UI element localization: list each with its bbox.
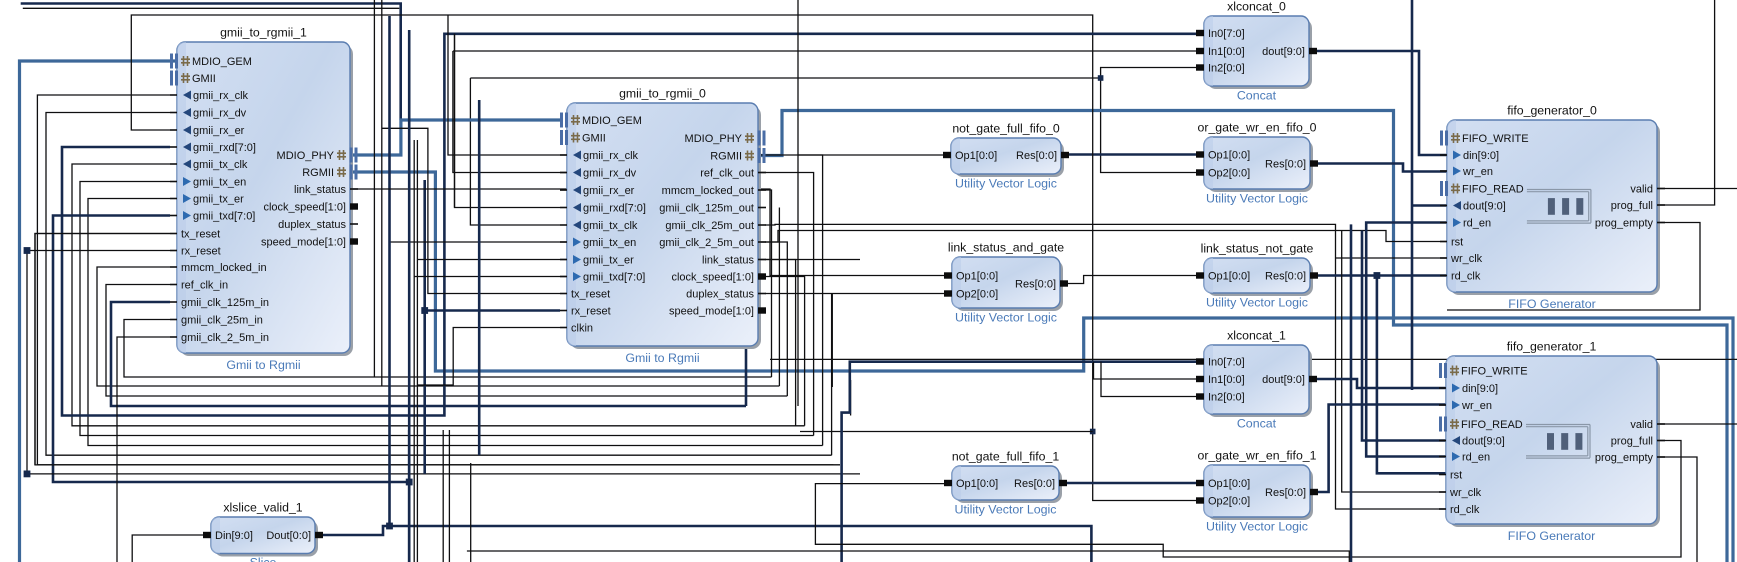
svg-text:xlconcat_0: xlconcat_0 bbox=[1227, 0, 1286, 14]
junction at 27,250 bbox=[24, 247, 31, 254]
svg-text:gmii_clk_25m_out: gmii_clk_25m_out bbox=[665, 220, 754, 232]
svg-text:In1[0:0]: In1[0:0] bbox=[1208, 46, 1245, 58]
svg-text:In0[7:0]: In0[7:0] bbox=[1208, 28, 1245, 40]
svg-text:gmii_txd[7:0]: gmii_txd[7:0] bbox=[193, 211, 255, 223]
junction at 1101,78 bbox=[1098, 75, 1104, 81]
wire gmii_to_rgmii_1 pin y=302 routing band y=406 bbox=[111, 302, 746, 406]
svg-text:din[9:0]: din[9:0] bbox=[1463, 150, 1499, 162]
svg-text:clock_speed[1:0]: clock_speed[1:0] bbox=[263, 202, 346, 214]
wire w49 bbox=[417, 328, 560, 386]
svg-text:tx_reset: tx_reset bbox=[181, 229, 220, 241]
svg-text:gmii_clk_2_5m_out: gmii_clk_2_5m_out bbox=[659, 237, 754, 249]
wire w61 bbox=[1336, 257, 1448, 259]
wire w41 bbox=[453, 51, 567, 173]
wire w22 bbox=[560, 190, 772, 377]
svg-text:Res[0:0]: Res[0:0] bbox=[1265, 159, 1306, 171]
block gmii_to_rgmii_0 bbox=[560, 87, 766, 366]
svg-text:Utility Vector Logic: Utility Vector Logic bbox=[1206, 192, 1308, 206]
wire w23 bbox=[778, 208, 780, 387]
svg-text:clkin: clkin bbox=[571, 323, 593, 335]
wire w71 bbox=[831, 294, 833, 388]
wire w2 bbox=[21, 4, 401, 121]
svg-text:Op2[0:0]: Op2[0:0] bbox=[1208, 168, 1250, 180]
svg-text:prog_empty: prog_empty bbox=[1595, 452, 1654, 464]
svg-text:speed_mode[1:0]: speed_mode[1:0] bbox=[669, 306, 754, 318]
svg-text:RGMII: RGMII bbox=[710, 151, 742, 163]
wire bus to xlconcat_1 In0 bbox=[842, 362, 1197, 562]
wire link_status_1 to and_gate Op1 bbox=[352, 189, 944, 276]
svg-text:In0[7:0]: In0[7:0] bbox=[1208, 357, 1245, 369]
svg-text:gmii_rx_er: gmii_rx_er bbox=[193, 125, 245, 137]
svg-text:gmii_tx_en: gmii_tx_en bbox=[583, 237, 636, 249]
svg-text:ref_clk_out: ref_clk_out bbox=[700, 168, 754, 180]
wire not_gate_full_fifo_1 Res to or_gate_1 Op1 bbox=[1059, 482, 1197, 485]
svg-text:Op1[0:0]: Op1[0:0] bbox=[1208, 271, 1250, 283]
wire MDIO_PHY_1 to MDIO_GEM_0 bus bbox=[352, 120, 560, 155]
wire fifo_0 prog_empty bbox=[1447, 223, 1700, 311]
svg-text:FIFO_WRITE: FIFO_WRITE bbox=[1461, 366, 1528, 378]
wire w31 bbox=[850, 380, 852, 416]
svg-text:Op1[0:0]: Op1[0:0] bbox=[956, 478, 998, 490]
svg-text:prog_empty: prog_empty bbox=[1595, 218, 1654, 230]
svg-text:FIFO_WRITE: FIFO_WRITE bbox=[1462, 133, 1529, 145]
wire w40 bbox=[382, 128, 560, 293]
wire w53 bbox=[388, 16, 391, 526]
wire gmii_rxd bus to xlconcat_0 In0 bbox=[62, 34, 1197, 416]
svg-text:gmii_tx_en: gmii_tx_en bbox=[193, 177, 246, 189]
wire w7 bbox=[1101, 78, 1197, 173]
svg-text:Utility Vector Logic: Utility Vector Logic bbox=[1206, 296, 1308, 310]
wire w99 bbox=[478, 100, 481, 455]
svg-text:rd_clk: rd_clk bbox=[1450, 504, 1480, 516]
FIFO icon bbox=[1527, 190, 1591, 224]
svg-text:gmii_rx_clk: gmii_rx_clk bbox=[583, 150, 639, 162]
wire w87 bbox=[1366, 223, 1447, 457]
svg-text:Utility Vector Logic: Utility Vector Logic bbox=[955, 311, 1057, 325]
wire w97 bbox=[448, 430, 450, 562]
svg-text:GMII: GMII bbox=[192, 73, 216, 85]
wire w34 bbox=[408, 482, 411, 562]
svg-text:Res[0:0]: Res[0:0] bbox=[1014, 478, 1055, 490]
svg-text:Utility Vector Logic: Utility Vector Logic bbox=[955, 177, 1057, 191]
svg-text:Utility Vector Logic: Utility Vector Logic bbox=[1206, 520, 1308, 534]
svg-text:RGMII: RGMII bbox=[302, 167, 334, 179]
svg-text:Concat: Concat bbox=[1237, 417, 1277, 431]
svg-text:Din[9:0]: Din[9:0] bbox=[215, 530, 253, 542]
wire w64 bbox=[1411, 0, 1414, 390]
svg-text:gmii_clk_25m_in: gmii_clk_25m_in bbox=[181, 315, 263, 327]
wire w27 bbox=[560, 277, 805, 426]
svg-text:Res[0:0]: Res[0:0] bbox=[1016, 150, 1057, 162]
junction at 27,474 bbox=[24, 471, 31, 478]
svg-text:gmii_rxd[7:0]: gmii_rxd[7:0] bbox=[193, 142, 256, 154]
wire w29 bbox=[560, 155, 823, 446]
svg-text:fifo_generator_1: fifo_generator_1 bbox=[1507, 340, 1597, 354]
wire RGMII_0 bus bbox=[758, 111, 1727, 562]
svg-text:Op1[0:0]: Op1[0:0] bbox=[1208, 478, 1250, 490]
wire w48 bbox=[455, 34, 561, 208]
wire gmii_to_rgmii_1 pin y=181.5 routing band y=435.5 bbox=[80, 182, 814, 436]
svg-text:not_gate_full_fifo_1: not_gate_full_fifo_1 bbox=[952, 450, 1060, 464]
svg-text:dout[9:0]: dout[9:0] bbox=[1262, 46, 1305, 58]
block xlslice_valid_1 bbox=[203, 501, 323, 562]
wire w81 bbox=[770, 358, 1737, 360]
svg-text:Res[0:0]: Res[0:0] bbox=[1015, 279, 1056, 291]
wire w92 bbox=[470, 463, 472, 562]
block fifo_generator_1 bbox=[1439, 340, 1665, 544]
wire w62 bbox=[765, 231, 1447, 243]
wire w102 bbox=[454, 34, 456, 208]
junction at 409,482 bbox=[406, 479, 413, 486]
svg-text:gmii_rx_clk: gmii_rx_clk bbox=[193, 90, 249, 102]
junction at 425,310 bbox=[421, 307, 428, 314]
wire gmii_to_rgmii_1 pin y=112.5 routing band y=455.2 bbox=[46, 113, 832, 456]
svg-text:prog_full: prog_full bbox=[1611, 200, 1653, 212]
wire w45 bbox=[390, 241, 561, 243]
wire xlconcat_0 dout to fifo_0 din bbox=[1309, 51, 1447, 155]
svg-text:MDIO_GEM: MDIO_GEM bbox=[582, 115, 642, 127]
svg-text:Op1[0:0]: Op1[0:0] bbox=[1208, 150, 1250, 162]
svg-text:gmii_rx_dv: gmii_rx_dv bbox=[193, 108, 247, 120]
svg-text:or_gate_wr_en_fifo_0: or_gate_wr_en_fifo_0 bbox=[1198, 121, 1317, 135]
svg-text:gmii_tx_er: gmii_tx_er bbox=[193, 194, 244, 206]
svg-text:rst: rst bbox=[1450, 470, 1462, 482]
wire w50 bbox=[373, 0, 375, 377]
block xlconcat_1 bbox=[1196, 329, 1317, 431]
svg-text:wr_clk: wr_clk bbox=[1450, 253, 1483, 265]
block not_gate_full_fifo_1 bbox=[944, 450, 1067, 517]
svg-text:MDIO_GEM: MDIO_GEM bbox=[192, 56, 252, 68]
svg-text:mmcm_locked_in: mmcm_locked_in bbox=[181, 262, 267, 274]
wire w80 bbox=[1101, 362, 1197, 397]
wire w39 bbox=[425, 309, 560, 312]
block not_gate_full_fifo_0 bbox=[943, 122, 1069, 191]
wire xlconcat_1 dout to fifo_1 din bbox=[1309, 379, 1446, 388]
wire gmii_to_rgmii_1 pin y=233.5 routing band y=464.9 bbox=[35, 234, 840, 465]
svg-text:gmii_to_rgmii_1: gmii_to_rgmii_1 bbox=[220, 26, 307, 40]
wire and_gate Res to link_status_not_gate Op1 bbox=[1060, 276, 1197, 284]
svg-text:Utility Vector Logic: Utility Vector Logic bbox=[955, 503, 1057, 517]
wire w96 bbox=[442, 430, 444, 562]
wire w3 bbox=[23, 7, 400, 9]
wire w95 bbox=[416, 430, 418, 562]
block fifo_generator_0 bbox=[1440, 104, 1665, 312]
wire w36 bbox=[37, 464, 833, 466]
wire gmii_to_rgmii_1 pin y=284.5 routing band y=396 bbox=[106, 285, 787, 397]
svg-text:xlslice_valid_1: xlslice_valid_1 bbox=[223, 501, 302, 515]
wire w42 bbox=[453, 50, 1197, 52]
svg-text:rx_reset: rx_reset bbox=[181, 246, 221, 258]
svg-text:gmii_clk_125m_in: gmii_clk_125m_in bbox=[181, 297, 269, 309]
svg-text:rx_reset: rx_reset bbox=[571, 306, 611, 318]
svg-text:gmii_rx_dv: gmii_rx_dv bbox=[583, 168, 637, 180]
wire net gmii_rx_er_1 bbox=[131, 15, 1092, 130]
wire or_gate_0 Res to fifo_0 wr_en bbox=[1311, 164, 1447, 172]
wire fifo_1 valid bbox=[1658, 423, 1737, 425]
svg-text:gmii_to_rgmii_0: gmii_to_rgmii_0 bbox=[619, 87, 706, 101]
svg-text:mmcm_locked_out: mmcm_locked_out bbox=[662, 185, 754, 197]
wire w46 bbox=[417, 259, 560, 261]
svg-text:rd_en: rd_en bbox=[1462, 452, 1490, 464]
wire fifo_1 dout bbox=[1362, 231, 1446, 441]
wire w55 bbox=[797, 0, 799, 406]
svg-text:Res[0:0]: Res[0:0] bbox=[1265, 271, 1306, 283]
svg-text:In2[0:0]: In2[0:0] bbox=[1208, 63, 1245, 75]
wire w77 bbox=[1342, 231, 1447, 493]
svg-text:In2[0:0]: In2[0:0] bbox=[1208, 392, 1245, 404]
wire xlslice Dout net bbox=[316, 526, 1091, 562]
FIFO icon bbox=[1526, 425, 1590, 459]
wire gmii_to_rgmii_1 pin y=267 routing band y=386 bbox=[97, 267, 779, 386]
wire w25 bbox=[745, 346, 748, 406]
wire w93 bbox=[408, 430, 411, 562]
svg-text:FIFO_READ: FIFO_READ bbox=[1462, 184, 1524, 196]
svg-text:gmii_clk_125m_out: gmii_clk_125m_out bbox=[659, 203, 754, 215]
block xlconcat_0 bbox=[1196, 0, 1317, 103]
svg-text:FIFO_READ: FIFO_READ bbox=[1461, 419, 1523, 431]
svg-text:valid: valid bbox=[1630, 184, 1653, 196]
wire MDIO bus into gmii_to_rgmii_1 MDIO_GEM bbox=[20, 61, 178, 562]
wire w44 bbox=[448, 15, 560, 155]
wire to fifo_1 rst bbox=[1377, 276, 1447, 474]
svg-text:fifo_generator_0: fifo_generator_0 bbox=[1507, 104, 1597, 118]
svg-text:Op1[0:0]: Op1[0:0] bbox=[956, 271, 998, 283]
svg-text:wr_en: wr_en bbox=[1461, 400, 1492, 412]
svg-text:Slice: Slice bbox=[250, 556, 277, 562]
svg-text:prog_full: prog_full bbox=[1611, 436, 1653, 448]
svg-text:wr_en: wr_en bbox=[1462, 166, 1493, 178]
wire gmii_txd_1 bus bbox=[53, 216, 409, 483]
svg-text:link_status: link_status bbox=[702, 255, 754, 267]
wire w101 bbox=[408, 30, 411, 482]
svg-text:not_gate_full_fifo_0: not_gate_full_fifo_0 bbox=[952, 122, 1060, 136]
wire link_status_not_gate Res to fifo_0 rd_clk bbox=[1311, 274, 1447, 277]
wire gmii_to_rgmii_1 pin y=164 routing band y=425.8 bbox=[72, 164, 805, 426]
junction at 1377,276 bbox=[1374, 272, 1381, 279]
wire tx_reset net bbox=[35, 234, 170, 465]
svg-text:duplex_status: duplex_status bbox=[686, 289, 754, 301]
svg-text:gmii_clk_2_5m_in: gmii_clk_2_5m_in bbox=[181, 332, 269, 344]
svg-text:din[9:0]: din[9:0] bbox=[1462, 383, 1498, 395]
svg-text:duplex_status: duplex_status bbox=[278, 219, 346, 231]
svg-text:Op1[0:0]: Op1[0:0] bbox=[955, 150, 997, 162]
svg-text:clock_speed[1:0]: clock_speed[1:0] bbox=[671, 272, 754, 284]
wire w43 bbox=[117, 337, 170, 562]
wire w100 bbox=[416, 140, 418, 430]
wire fifo_1 prog_full to not_gate_1 Op1 bbox=[815, 441, 1681, 558]
svg-text:rd_en: rd_en bbox=[1463, 218, 1491, 230]
svg-text:In1[0:0]: In1[0:0] bbox=[1208, 374, 1245, 386]
svg-text:dout[9:0]: dout[9:0] bbox=[1462, 436, 1505, 448]
wire w5 bbox=[470, 77, 1100, 79]
svg-text:rst: rst bbox=[1451, 237, 1463, 249]
wire w28 bbox=[560, 173, 814, 436]
svg-text:Res[0:0]: Res[0:0] bbox=[1265, 487, 1306, 499]
svg-text:dout[9:0]: dout[9:0] bbox=[1463, 201, 1506, 213]
wire w60 bbox=[765, 224, 1446, 509]
svg-text:ref_clk_in: ref_clk_in bbox=[181, 280, 228, 292]
svg-text:gmii_tx_clk: gmii_tx_clk bbox=[583, 220, 638, 232]
svg-text:link_status: link_status bbox=[294, 184, 346, 196]
wire fifo_0 dout bbox=[1412, 204, 1447, 207]
block or_gate_wr_en_fifo_0 bbox=[1196, 121, 1318, 206]
wire w6 bbox=[1101, 68, 1197, 79]
wire not_gate_full_fifo_0 Res to or_gate Op1 bbox=[1061, 153, 1197, 156]
wire w56 bbox=[798, 154, 944, 156]
wire fifo_0 prog_full bbox=[1658, 0, 1715, 205]
wire rx_reset net bbox=[27, 251, 860, 474]
wire w75 bbox=[1093, 77, 1197, 501]
wire w88 bbox=[1350, 224, 1353, 562]
wire w94 bbox=[413, 430, 415, 562]
wire gmii_to_rgmii_1 pin y=198.5 routing band y=445.5 bbox=[88, 199, 823, 446]
wire w76 bbox=[800, 431, 1093, 433]
wire w30 bbox=[831, 294, 833, 456]
svg-text:Concat: Concat bbox=[1237, 89, 1277, 103]
wire w98 bbox=[413, 140, 415, 430]
svg-text:link_status_and_gate: link_status_and_gate bbox=[948, 241, 1064, 255]
wire gmii_to_rgmii_1 pin y=319.5 routing band y=377 bbox=[124, 320, 772, 378]
svg-text:gmii_rxd[7:0]: gmii_rxd[7:0] bbox=[583, 203, 646, 215]
svg-text:dout[9:0]: dout[9:0] bbox=[1262, 374, 1305, 386]
wire w91 bbox=[467, 551, 1349, 562]
wire xlslice Din net bbox=[132, 535, 211, 562]
block gmii_to_rgmii_1 bbox=[170, 26, 358, 373]
svg-text:Op2[0:0]: Op2[0:0] bbox=[1208, 496, 1250, 508]
wire duplex_status_0 to and_gate Op2 bbox=[765, 293, 944, 295]
wire fifo_1 prog_empty bbox=[1658, 457, 1697, 562]
wire or_gate_1 Res to fifo_1 wr_en bbox=[1311, 405, 1446, 493]
block link_status_and_gate bbox=[944, 241, 1068, 325]
junction at 1093,432 bbox=[1090, 429, 1096, 435]
wire w47 bbox=[414, 276, 560, 278]
wire w69 bbox=[765, 259, 860, 261]
svg-text:gmii_tx_clk: gmii_tx_clk bbox=[193, 159, 248, 171]
wire w51 bbox=[381, 0, 383, 386]
svg-text:Gmii to Rgmii: Gmii to Rgmii bbox=[625, 351, 699, 365]
svg-text:gmii_rx_er: gmii_rx_er bbox=[583, 185, 635, 197]
svg-text:Dout[0:0]: Dout[0:0] bbox=[266, 530, 311, 542]
junction at 390,526 bbox=[386, 523, 393, 530]
svg-text:tx_reset: tx_reset bbox=[571, 289, 610, 301]
svg-text:MDIO_PHY: MDIO_PHY bbox=[685, 133, 743, 145]
block link_status_not_gate bbox=[1196, 242, 1318, 310]
svg-text:or_gate_wr_en_fifo_1: or_gate_wr_en_fifo_1 bbox=[1198, 449, 1317, 463]
svg-text:gmii_tx_er: gmii_tx_er bbox=[583, 255, 634, 267]
svg-text:xlconcat_1: xlconcat_1 bbox=[1227, 329, 1286, 343]
wire w79 bbox=[1094, 362, 1198, 379]
wire w24 bbox=[560, 242, 787, 396]
wire w26 bbox=[560, 260, 796, 426]
wire w8 bbox=[470, 78, 560, 225]
svg-text:wr_clk: wr_clk bbox=[1449, 487, 1482, 499]
svg-text:valid: valid bbox=[1630, 419, 1653, 431]
svg-text:MDIO_PHY: MDIO_PHY bbox=[277, 150, 335, 162]
svg-text:Op2[0:0]: Op2[0:0] bbox=[956, 289, 998, 301]
svg-text:rd_clk: rd_clk bbox=[1451, 271, 1481, 283]
svg-text:FIFO Generator: FIFO Generator bbox=[1508, 529, 1595, 543]
svg-text:speed_mode[1:0]: speed_mode[1:0] bbox=[261, 237, 346, 249]
wire RGMII_1 bus bbox=[352, 172, 1733, 562]
svg-text:link_status_not_gate: link_status_not_gate bbox=[1201, 242, 1314, 256]
wire fifo_0 valid bbox=[1658, 188, 1737, 190]
wire w38 bbox=[423, 180, 426, 474]
svg-text:GMII: GMII bbox=[582, 133, 606, 145]
wire gmii_to_rgmii_1 pin y=95 routing band y=464.9 bbox=[37, 95, 840, 465]
block or_gate_wr_en_fifo_1 bbox=[1196, 449, 1318, 534]
svg-text:Gmii to Rgmii: Gmii to Rgmii bbox=[226, 358, 300, 372]
svg-text:FIFO Generator: FIFO Generator bbox=[1508, 297, 1595, 311]
svg-text:gmii_txd[7:0]: gmii_txd[7:0] bbox=[583, 272, 645, 284]
